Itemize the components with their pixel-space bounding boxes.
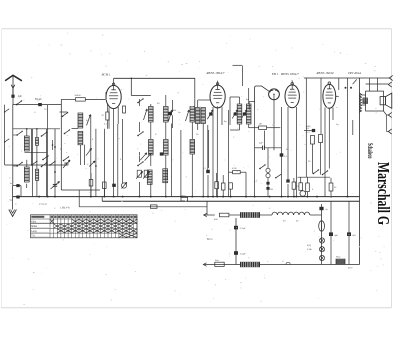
svg-text:2+2: 2+2	[306, 132, 310, 134]
coil L11	[24, 136, 29, 151]
resistor R14	[299, 183, 303, 191]
svg-text:RENS 1823d: RENS 1823d	[316, 71, 334, 75]
speaker	[380, 97, 386, 105]
switch far left b	[5, 139, 10, 142]
terminal mains	[203, 263, 206, 266]
switch band contact 11	[16, 134, 18, 136]
svg-text:(MΩ): (MΩ)	[306, 126, 311, 128]
potentiometer P2	[121, 183, 126, 188]
resistor R16	[106, 112, 109, 120]
wire mid link	[25, 152, 47, 154]
wire extra verts C	[208, 130, 210, 168]
coil output transformer	[359, 93, 361, 96]
wire cap stub	[13, 185, 21, 187]
switch osc S4b	[64, 133, 66, 135]
coil L15	[196, 108, 200, 124]
svg-text:2: 2	[60, 149, 62, 151]
fuse link bus	[181, 197, 188, 201]
wire eb1 pins	[273, 100, 275, 151]
svg-text:0,1µF: 0,1µF	[240, 254, 246, 256]
tube V1 BCH1	[106, 85, 121, 108]
resistor R3	[259, 126, 267, 129]
capacitor C15 4uF	[347, 232, 351, 236]
svg-text:17.9.41: 17.9.41	[39, 203, 47, 206]
wire bankA drop	[26, 184, 28, 188]
wire stub antenna rail	[4, 105, 6, 106]
wire top bus 1	[114, 77, 195, 79]
svg-text:800: 800	[173, 110, 176, 112]
wire V5 pins	[324, 108, 326, 197]
wire V4 anode	[291, 80, 293, 85]
coil L12	[24, 167, 29, 182]
page edge right	[391, 29, 393, 308]
svg-text:600: 600	[214, 219, 218, 221]
wire V4 pins	[287, 107, 289, 180]
svg-text:50000: 50000	[75, 95, 82, 97]
variable capacitor CV1	[51, 182, 60, 190]
wire osc mid	[72, 128, 79, 130]
wire top bus 2	[304, 77, 391, 79]
svg-text:4: 4	[92, 139, 94, 141]
trimmer pair	[137, 170, 141, 177]
svg-text:2µF: 2µF	[259, 143, 263, 145]
wire top row	[13, 104, 62, 106]
wire IF bottoms	[139, 122, 141, 132]
variable capacitor CV3	[86, 148, 92, 155]
wire main bus B	[101, 197, 103, 202]
resistor R6	[221, 183, 225, 190]
coil L17	[237, 104, 242, 124]
switch S1	[16, 104, 18, 106]
trimmer T6	[145, 153, 152, 160]
coil L11	[149, 140, 154, 156]
svg-text:8µ: 8µ	[224, 121, 227, 123]
coil L21 fine	[36, 138, 39, 146]
svg-text:70: 70	[44, 109, 47, 111]
switch table	[31, 215, 138, 238]
svg-text:T.A.: T.A.	[31, 235, 35, 238]
trimmer T1	[87, 115, 91, 126]
svg-text:s.Hd.44c: s.Hd.44c	[60, 207, 71, 210]
switch band contact 12	[16, 165, 18, 167]
trimmer T9	[243, 112, 246, 115]
svg-text:Lang: Lang	[31, 230, 37, 233]
coil L8	[164, 107, 169, 123]
junction dots bus	[38, 196, 40, 198]
switch IF S8	[137, 165, 139, 167]
switch far left a	[5, 109, 10, 112]
svg-text:0,1µF: 0,1µF	[240, 228, 246, 230]
svg-text:Schaleco: Schaleco	[366, 143, 373, 159]
node bank top	[26, 128, 28, 130]
resistor R11	[220, 213, 229, 217]
lamp LP2	[319, 247, 324, 252]
wire bus2 drops	[320, 78, 322, 134]
svg-text:2µ: 2µ	[326, 209, 329, 211]
lamp LP3	[319, 255, 324, 260]
switch S10	[259, 168, 261, 170]
svg-text:0,5: 0,5	[297, 186, 301, 188]
coil L14	[147, 170, 152, 184]
svg-text:25: 25	[308, 161, 311, 163]
capacitor C12	[234, 251, 238, 255]
resistor R10	[329, 183, 333, 191]
svg-text:3: 3	[120, 159, 122, 161]
trimmer T2	[144, 109, 148, 120]
wire eb1 riser	[242, 66, 244, 86]
coil L12	[164, 140, 169, 156]
tube V5 RENS1823d	[323, 84, 336, 108]
svg-text:0,1: 0,1	[104, 124, 108, 126]
wire mid right	[347, 78, 349, 197]
wire bus stub	[78, 190, 80, 207]
capacitor C5	[112, 184, 116, 187]
wire r3 conn	[249, 127, 259, 129]
svg-text:1µF: 1µF	[18, 95, 23, 98]
switch S11	[313, 173, 315, 175]
svg-text:30: 30	[157, 103, 160, 105]
wire cap col 1	[330, 201, 332, 264]
wire V5 anode riser	[338, 78, 340, 90]
wire V2 pins	[212, 107, 214, 197]
svg-text:0,1: 0,1	[254, 181, 258, 183]
svg-text:6: 6	[312, 189, 314, 191]
resistor R2	[103, 182, 107, 189]
potentiometer P1	[300, 191, 306, 197]
wire bank link	[13, 134, 17, 136]
svg-text:20: 20	[196, 134, 199, 136]
wire sw bus	[298, 176, 331, 178]
svg-text:48 V: 48 V	[348, 268, 353, 270]
resistor R12 mains	[336, 259, 345, 264]
wire psu row1	[204, 214, 215, 216]
wire r8 r9 down	[312, 144, 314, 174]
wire osc verts	[79, 145, 81, 165]
terminal chevron 3	[388, 112, 391, 117]
wire grid top	[61, 98, 75, 100]
resistor R7	[233, 171, 241, 174]
switch bankB contacts	[41, 135, 43, 137]
resistor R15	[306, 183, 310, 192]
switch osc S5	[63, 160, 65, 162]
wire r2 stub	[103, 189, 105, 197]
capacitor C10	[312, 129, 315, 132]
resistor R1 50k	[76, 98, 86, 101]
wire V1 pins	[108, 108, 110, 129]
switch band S3	[49, 164, 51, 166]
trimmer T5	[140, 153, 147, 160]
svg-text:0,2M: 0,2M	[232, 168, 237, 170]
wire L17 top	[239, 97, 241, 104]
svg-text:5µ: 5µ	[178, 112, 181, 114]
svg-text:0,1: 0,1	[284, 156, 288, 158]
terminal chevron 4	[388, 129, 391, 134]
choke winding 2	[240, 262, 260, 267]
wire IF link top	[131, 95, 151, 97]
trimmer T3	[169, 110, 173, 121]
wire ht riser	[130, 78, 132, 95]
wire det row	[255, 147, 263, 149]
lamp LP1	[319, 238, 324, 243]
resistor R13	[229, 183, 233, 189]
svg-text:0,1A: 0,1A	[307, 248, 312, 251]
jack TA	[266, 168, 270, 172]
page edge bottom	[1, 307, 392, 309]
svg-text:6(V): 6(V)	[307, 245, 311, 247]
resistor R5	[215, 182, 219, 189]
wire extra verts B	[104, 129, 106, 197]
wire left rail	[12, 105, 14, 186]
capacitor C13	[319, 207, 323, 210]
terminal chevron 1	[389, 75, 392, 80]
svg-text:0,1: 0,1	[307, 128, 311, 130]
coil L22 fine	[36, 169, 39, 180]
page edge top	[2, 28, 392, 30]
svg-text:TRV 46mA: TRV 46mA	[348, 71, 361, 75]
wire band bus	[5, 164, 67, 166]
wire r10	[330, 178, 332, 183]
svg-text:0,1: 0,1	[203, 168, 207, 170]
svg-text:BCH 1: BCH 1	[102, 73, 111, 77]
svg-text:Marschall G: Marschall G	[374, 162, 393, 225]
wire osc left rail	[60, 99, 62, 190]
wire IF row2 bottoms	[139, 152, 141, 162]
switch TA lever	[276, 174, 281, 178]
wire c8 r4	[287, 184, 289, 197]
capacitor C2 50pF	[38, 103, 42, 106]
capacitor C1	[11, 95, 14, 98]
coil L14b	[163, 169, 168, 183]
wire coil top 11	[26, 129, 28, 136]
wire cap col 2	[348, 201, 350, 264]
svg-text:1M: 1M	[270, 189, 273, 191]
choke winding	[240, 212, 260, 218]
coil L13	[190, 140, 195, 155]
wire v2 col	[207, 125, 209, 172]
svg-text:1µ: 1µ	[336, 124, 339, 126]
node bus1	[131, 78, 133, 80]
svg-text:50: 50	[334, 187, 337, 189]
wire c10	[304, 130, 312, 132]
svg-text:4V: 4V	[283, 221, 286, 223]
wire box feeders	[369, 78, 371, 91]
wire main bus A	[13, 196, 360, 198]
ground	[12, 207, 14, 210]
rail far left	[4, 106, 6, 165]
wire ta col	[267, 148, 269, 169]
coil L16	[201, 108, 205, 124]
svg-text:60 m: 60 m	[207, 238, 212, 241]
switch S12	[322, 174, 324, 176]
switch osc S4	[62, 116, 64, 118]
wire L15 conn	[197, 100, 199, 108]
terminal chevron 2	[388, 82, 391, 87]
svg-text:Sich: Sich	[215, 260, 219, 262]
svg-text:25: 25	[102, 115, 105, 117]
coil L18	[246, 104, 251, 124]
wire det col	[254, 110, 256, 197]
wire extra verts A	[47, 105, 49, 197]
antenna	[5, 75, 22, 81]
svg-text:4V: 4V	[296, 221, 299, 223]
wire V1 grid	[105, 92, 107, 99]
svg-text:EB 1: EB 1	[271, 72, 279, 76]
svg-text:1n: 1n	[10, 183, 13, 185]
wire IF verts1	[139, 99, 141, 106]
wire lower links	[207, 175, 209, 197]
svg-text:GND: GND	[181, 195, 186, 197]
svg-text:Netz: Netz	[336, 256, 341, 259]
wire mid drop	[235, 218, 237, 265]
page edge left	[1, 29, 3, 308]
wire extra verts D	[180, 130, 182, 197]
wire chevron leads	[386, 115, 388, 132]
svg-text:Mittel: Mittel	[31, 225, 37, 228]
resistor R17	[123, 106, 126, 113]
capacitor C16	[168, 112, 172, 115]
fuse F1	[215, 262, 224, 266]
switch S13	[42, 159, 44, 161]
svg-text:RENS 1894/7: RENS 1894/7	[280, 72, 299, 76]
coil L7	[149, 107, 154, 123]
wire right rail	[359, 78, 361, 265]
capacitor C8	[286, 179, 289, 182]
svg-text:X: X	[155, 134, 157, 136]
svg-text:50: 50	[286, 149, 289, 151]
trimmer T4	[186, 110, 190, 121]
bump	[286, 262, 290, 264]
capacitor C7 2uF	[262, 146, 264, 150]
heater winding	[272, 212, 277, 215]
fuse link 2	[150, 205, 157, 208]
resistor R8	[311, 136, 315, 145]
switch band S2	[31, 164, 33, 166]
tube V4 RENS1894	[285, 85, 299, 108]
variable capacitor CV2	[63, 160, 70, 168]
resistor R9	[319, 135, 323, 143]
wire to ground	[12, 186, 14, 207]
trimmer T8	[234, 112, 237, 115]
wire V1 anode	[113, 78, 115, 85]
coil L6 osc	[78, 131, 83, 145]
capacitor C9 vol	[206, 170, 210, 173]
wire psu bottom	[204, 264, 360, 266]
wire L17 bottom	[239, 124, 241, 130]
wire tuning rail	[54, 129, 56, 197]
tube V2 RENS1894	[210, 85, 225, 108]
capacitor C17	[160, 152, 163, 155]
wire eb1 grid lead	[255, 86, 269, 110]
coil L5 osc	[78, 113, 83, 128]
capacitor C11	[234, 226, 238, 230]
resistor R18	[89, 180, 93, 187]
wire banks top bus	[13, 128, 60, 130]
coil secondary	[363, 98, 368, 104]
capacitor C3	[16, 184, 19, 187]
svg-text:4µF: 4µF	[334, 235, 338, 237]
wire osc bottom	[61, 189, 100, 191]
tube V3 EB1	[269, 89, 280, 100]
wire col 281	[281, 107, 283, 197]
wire bankB rail	[36, 129, 38, 138]
wire small marks	[52, 140, 54, 150]
wire spk conn	[362, 94, 366, 96]
capacitor C4	[16, 196, 19, 199]
capacitor C6	[280, 153, 284, 156]
svg-text:RENS 1894/7: RENS 1894/7	[206, 71, 225, 75]
svg-text:50µµF: 50µµF	[35, 99, 42, 101]
wire IF row3	[139, 182, 141, 197]
switch IF S6	[137, 102, 139, 104]
trimmer T7	[209, 112, 212, 115]
wire rails extra	[32, 129, 34, 197]
capacitor C14 4uF	[329, 232, 333, 236]
coil L10	[190, 107, 195, 123]
rectifier tube V6	[319, 221, 325, 231]
wire V2 anode	[217, 81, 219, 85]
wire psu drop	[206, 201, 208, 215]
switch IF S7	[137, 135, 139, 137]
speaker frame	[366, 91, 384, 111]
wire lamp col	[321, 204, 323, 265]
svg-text:1M: 1M	[259, 124, 262, 126]
resistor R4	[292, 182, 296, 189]
wire antenna down	[12, 88, 14, 105]
wire coil top 12	[26, 160, 28, 167]
